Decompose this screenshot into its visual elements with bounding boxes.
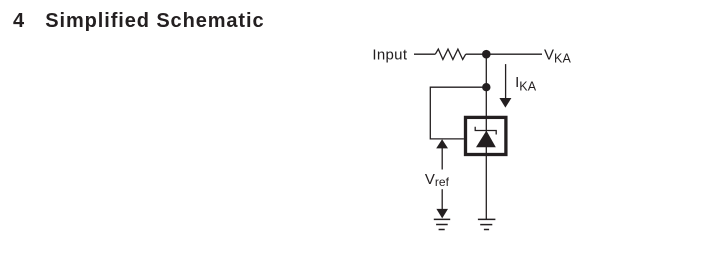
svg-text:Simplified Schematic: Simplified Schematic <box>45 10 264 32</box>
reference arrow Vref (down arrowhead to ground) <box>436 189 448 218</box>
svg-text:IKA: IKA <box>515 74 537 94</box>
junction dot node K (cathode node) <box>482 50 491 59</box>
current arrow IKA <box>499 64 511 108</box>
resistor R (input series resistor, zigzag) <box>435 49 465 59</box>
wire from Input to resistor R <box>414 53 435 55</box>
junction dot node FB (feedback tap) <box>482 83 490 91</box>
shunt regulator U1 (TL431 symbol box) <box>466 117 506 154</box>
reference arrow Vref (up arrowhead) <box>436 139 448 169</box>
wire node K down through regulator U1 to ground <box>485 54 487 219</box>
svg-text:Input: Input <box>372 47 407 64</box>
svg-text:4: 4 <box>13 10 25 32</box>
svg-text:VKA: VKA <box>544 46 572 65</box>
zener cathode bar inside U1 <box>475 127 496 135</box>
ground symbol GND1 (below Vref arrow) <box>434 219 450 229</box>
wire feedback from node FB to REF pin of U1 <box>430 87 486 139</box>
wire from resistor R to node K <box>466 53 487 55</box>
zener anode triangle inside U1 <box>476 131 496 148</box>
svg-text:Vref: Vref <box>425 171 450 189</box>
ground symbol GND2 (anode of U1) <box>478 219 496 229</box>
wire from node K to VKA terminal <box>486 53 542 55</box>
